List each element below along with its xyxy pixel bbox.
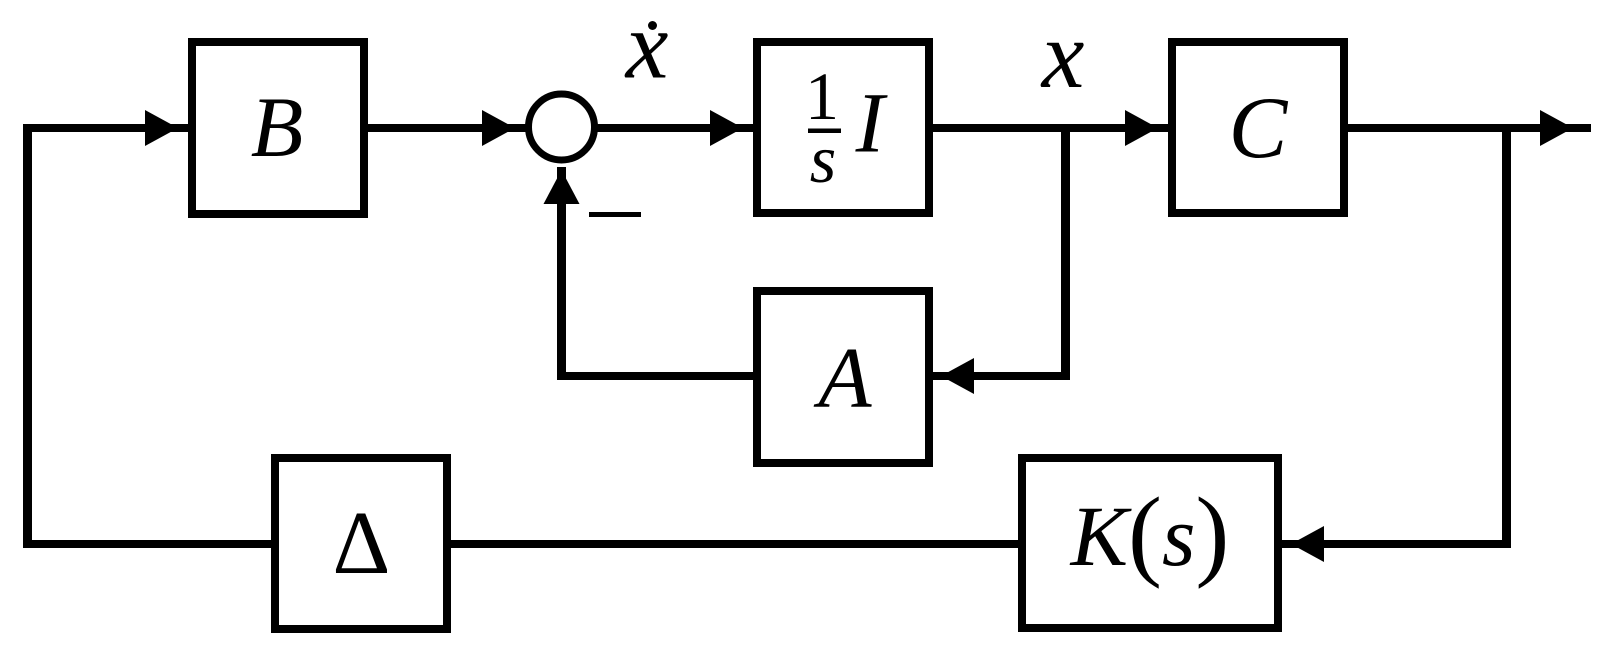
svg-text:A: A — [813, 329, 872, 426]
wire: left return vertical — [23, 124, 32, 548]
block B — [192, 42, 364, 214]
svg-text:K(s): K(s) — [1069, 477, 1230, 590]
minus sign at summing junction — [589, 212, 641, 217]
svg-text:x: x — [1040, 1, 1085, 108]
block A — [757, 291, 929, 463]
label 1/s denominator s — [810, 121, 836, 197]
arrowhead into block C — [1125, 110, 1158, 146]
wire: sum feedback vertical up into summing junction — [557, 167, 566, 380]
svg-text:I: I — [855, 75, 888, 171]
wire: top main signal line (left corner through B, sum, integrator, C to output) — [23, 124, 1591, 132]
block Delta — [275, 458, 447, 629]
summing junction circle — [529, 94, 595, 160]
arrowhead output (right end) — [1540, 110, 1573, 146]
label I of integrator — [855, 75, 888, 171]
block C — [1172, 42, 1344, 213]
block 1/s I (integrator) — [757, 42, 929, 213]
label B — [251, 79, 304, 175]
label Delta — [333, 494, 391, 593]
label 1/s fraction bar — [808, 129, 841, 134]
arrowhead into integrator block — [710, 110, 743, 146]
arrowhead into K(s) (pointing left) — [1291, 526, 1324, 562]
label x-dot (state derivative) — [624, 0, 669, 99]
wire: A feedback horizontal (x node into A, A out to sum vertical) — [557, 372, 1070, 380]
label C — [1229, 80, 1289, 177]
arrowhead up into summing junction (negative feedback) — [544, 170, 580, 204]
arrowhead into block B — [145, 110, 178, 146]
wire: right drop vertical from output node to K(s) input line — [1502, 124, 1511, 548]
label x-dot overdot — [648, 21, 657, 30]
arrowhead into block A (pointing left) — [941, 358, 974, 394]
svg-text:Δ: Δ — [333, 494, 391, 593]
label A — [813, 329, 872, 426]
wire: x-node branch vertical down to A feedback — [1061, 128, 1070, 380]
label x (state) — [1040, 1, 1085, 108]
svg-text:x: x — [624, 0, 669, 99]
arrowhead into summing junction (from B) — [482, 110, 515, 146]
svg-text:C: C — [1229, 80, 1289, 177]
label 1/s numerator 1 — [805, 58, 839, 134]
label K(s) — [1069, 477, 1230, 590]
wire: bottom return line through Delta and K(s) — [23, 540, 1511, 548]
svg-text:B: B — [251, 79, 304, 175]
svg-text:s: s — [810, 121, 836, 197]
block K(s) — [1022, 458, 1278, 628]
